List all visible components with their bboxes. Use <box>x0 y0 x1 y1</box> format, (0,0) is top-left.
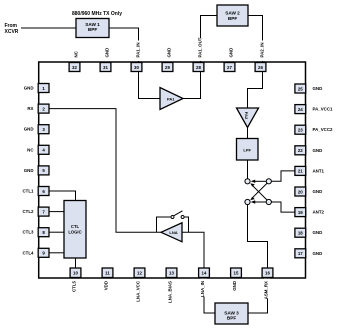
pin 25 <box>295 84 306 93</box>
svg-text:GND: GND <box>232 281 237 291</box>
amplifier LNA <box>161 223 182 242</box>
white gaps where labels cross wires <box>135 41 141 62</box>
pin 8 <box>38 228 49 237</box>
svg-text:18: 18 <box>298 231 303 236</box>
wire SAW1 to pin30 PA1_IN <box>109 28 139 63</box>
svg-text:GND: GND <box>229 48 234 58</box>
svg-text:19: 19 <box>298 210 303 215</box>
wire pin2 RX to LNA output <box>49 109 161 233</box>
svg-text:SAW 2: SAW 2 <box>225 10 240 15</box>
pin 26 <box>255 63 266 72</box>
svg-text:CTL: CTL <box>71 224 80 229</box>
svg-text:XCVR: XCVR <box>5 29 19 35</box>
wire BR circle to ANT2 pin19 <box>272 202 296 212</box>
filter SAW3 BPF <box>215 303 248 324</box>
pin 14 <box>199 268 210 278</box>
svg-text:PA_VCC2: PA_VCC2 <box>313 127 333 132</box>
svg-text:GND: GND <box>167 48 172 58</box>
pin 24 <box>295 105 306 114</box>
svg-text:31: 31 <box>103 65 108 70</box>
svg-text:LPF: LPF <box>243 147 251 152</box>
svg-text:CTL2: CTL2 <box>23 209 35 214</box>
svg-text:17: 17 <box>298 251 303 256</box>
chip outline U1 <box>39 62 306 278</box>
svg-text:ANT1: ANT1 <box>313 168 325 173</box>
switch pole circle BR <box>266 199 271 204</box>
filter SAW2 BPF <box>217 5 248 26</box>
wire PA1 output to pin28 <box>183 72 201 99</box>
wire XCVR to SAW1 <box>21 27 76 29</box>
pin 3 <box>38 125 49 134</box>
svg-text:13: 13 <box>169 271 174 276</box>
pin 31 <box>100 63 111 72</box>
wire SAW3 to pin16 ASM_RX <box>248 278 268 314</box>
switch throw top horizontal <box>253 180 267 182</box>
pin 18 <box>295 228 306 237</box>
svg-text:GND: GND <box>24 168 34 173</box>
svg-text:CTL4: CTL4 <box>23 250 35 255</box>
svg-text:21: 21 <box>298 169 303 174</box>
svg-text:14: 14 <box>202 271 207 276</box>
svg-text:23: 23 <box>298 128 303 133</box>
pin 32 <box>69 63 80 72</box>
svg-text:28: 28 <box>196 65 201 70</box>
svg-text:ASM_RX: ASM_RX <box>263 281 268 299</box>
svg-text:PA2: PA2 <box>244 112 249 120</box>
pin 27 <box>224 63 235 72</box>
svg-text:11: 11 <box>105 271 110 276</box>
svg-text:24: 24 <box>298 107 303 112</box>
svg-text:GND: GND <box>24 86 34 91</box>
wire pin26 to PA2 input <box>248 72 263 109</box>
svg-text:PA1: PA1 <box>167 97 175 102</box>
wire LPF to switch TX node <box>247 160 249 179</box>
pin 11 <box>102 268 113 278</box>
switch blade open <box>174 211 183 216</box>
wire pin8 CTL3 to logic <box>49 231 64 233</box>
wire bypass right leg <box>184 217 188 232</box>
svg-text:15: 15 <box>234 271 239 276</box>
svg-text:PA1_IN: PA1_IN <box>136 42 141 57</box>
switch pole circle TR <box>266 179 271 184</box>
pin 1 <box>38 84 49 93</box>
svg-text:CTL1: CTL1 <box>23 189 35 194</box>
wire pin7 CTL2 to logic <box>49 211 64 213</box>
pin 4 <box>38 145 49 154</box>
switch throw diagonal BR to TL <box>252 185 267 200</box>
svg-text:CTL3: CTL3 <box>23 230 35 235</box>
svg-text:LOGIC: LOGIC <box>68 230 81 235</box>
amplifier PA1 <box>160 88 183 110</box>
top pin boxes 32-26 <box>69 63 266 72</box>
wire pin14 LNA_IN to LNA input <box>182 232 204 268</box>
svg-text:ANT2: ANT2 <box>313 210 325 215</box>
wire TR circle to ANT1 pin21 <box>272 171 296 181</box>
right pin labels <box>313 86 333 256</box>
svg-text:BPF: BPF <box>228 16 238 21</box>
wire pin30 to PA1 input <box>139 72 161 99</box>
svg-text:32: 32 <box>72 65 77 70</box>
pin 6 <box>38 187 49 196</box>
switch throw bottom horizontal <box>253 201 267 203</box>
svg-text:20: 20 <box>298 189 303 194</box>
pin 22 <box>295 146 306 155</box>
pin 7 <box>38 207 49 216</box>
switch throw diagonal TR to BL <box>252 183 267 198</box>
svg-text:PA_VCC1: PA_VCC1 <box>313 107 333 112</box>
switch contact circle left <box>171 216 174 219</box>
wire SAW2 to pin28 PA1_OUT <box>201 16 218 63</box>
svg-text:CTL5: CTL5 <box>71 280 76 292</box>
pin 19 <box>295 208 306 217</box>
svg-text:BPF: BPF <box>88 27 98 32</box>
svg-text:LNA_BIAS: LNA_BIAS <box>167 281 172 303</box>
svg-text:880/960 MHz TX Only: 880/960 MHz TX Only <box>72 11 122 17</box>
svg-text:LNA_VCC: LNA_VCC <box>135 280 140 302</box>
pin 20 <box>295 187 306 196</box>
svg-text:30: 30 <box>134 65 139 70</box>
svg-text:27: 27 <box>227 65 232 70</box>
pin 29 <box>162 63 173 72</box>
svg-text:GND: GND <box>313 251 323 256</box>
svg-text:LNA_IN: LNA_IN <box>200 281 205 297</box>
svg-text:NC: NC <box>74 50 79 57</box>
wire SAW3 to pin14 LNA_IN <box>204 278 215 314</box>
svg-text:VDD: VDD <box>103 281 108 290</box>
pin 5 <box>38 166 49 175</box>
pin 9 <box>38 248 49 257</box>
svg-text:16: 16 <box>265 271 270 276</box>
block CTL LOGIC <box>64 201 86 259</box>
svg-text:GND: GND <box>313 189 323 194</box>
svg-text:10: 10 <box>73 271 78 276</box>
right pin boxes 25-17 <box>295 84 306 258</box>
amplifier PA2 <box>237 108 259 128</box>
pin 2 <box>38 104 49 113</box>
bottom pin boxes 10-16 <box>70 268 273 278</box>
pin 17 <box>295 249 306 258</box>
wire bypass left leg <box>157 217 171 232</box>
pin 13 <box>166 268 177 278</box>
svg-text:29: 29 <box>165 65 170 70</box>
switch SW1 antenna DPDT <box>252 171 296 212</box>
label From XCVR <box>5 23 19 35</box>
svg-text:PA1_OUT: PA1_OUT <box>198 37 203 57</box>
svg-text:RX: RX <box>27 106 33 111</box>
switch contact circle right <box>181 216 184 219</box>
svg-text:GND: GND <box>105 48 110 58</box>
switch pole circle TL <box>245 179 250 184</box>
pin 12 <box>134 268 145 278</box>
svg-text:PA2_IN: PA2_IN <box>260 42 265 57</box>
pin 30 <box>131 63 142 72</box>
wire pin6 CTL1 to logic <box>49 191 76 201</box>
pin 23 <box>295 125 306 134</box>
pin 10 <box>70 268 81 278</box>
svg-text:BPF: BPF <box>227 316 237 321</box>
arrowheads into left poles <box>250 180 255 204</box>
switch pole circle BL <box>245 199 250 204</box>
wire logic to pin10 CTL5 <box>75 258 77 268</box>
white gaps where labels cross wires <box>201 279 207 297</box>
pin 28 <box>193 63 204 72</box>
pin 15 <box>231 268 242 278</box>
svg-text:12: 12 <box>137 271 142 276</box>
pin 16 <box>262 268 273 278</box>
filter LPF <box>237 139 259 161</box>
wire SAW2 to pin26 PA2_IN <box>248 16 263 63</box>
svg-text:GND: GND <box>313 86 323 91</box>
wire pin9 CTL4 to logic <box>49 252 64 254</box>
svg-text:NC: NC <box>27 147 34 152</box>
svg-text:GND: GND <box>313 148 323 153</box>
svg-text:25: 25 <box>298 86 303 91</box>
left pin boxes 1-9 <box>38 84 49 258</box>
filter SAW1 BPF <box>76 19 109 38</box>
svg-text:LNA: LNA <box>169 230 177 235</box>
bypass switch around LNA <box>157 211 189 233</box>
pin 21 <box>295 166 306 175</box>
left pin labels <box>23 86 35 256</box>
svg-text:GND: GND <box>24 127 34 132</box>
wire PA2 to LPF <box>247 128 249 139</box>
svg-text:22: 22 <box>298 148 303 153</box>
wire switch RX node to pin16 ASM_RX <box>248 205 268 268</box>
svg-text:GND: GND <box>313 230 323 235</box>
svg-text:26: 26 <box>258 65 263 70</box>
